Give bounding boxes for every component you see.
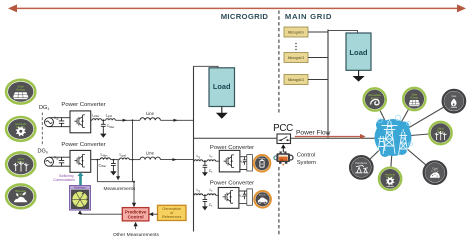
wire Lg-Lf A — [203, 160, 207, 162]
svg-text:Electric: Electric — [259, 193, 267, 196]
IGBT glyph inside box A — [224, 155, 234, 168]
svg-text:Measurements: Measurements — [104, 186, 136, 192]
DC rails DG1 — [49, 118, 70, 127]
main grid load — [346, 33, 371, 70]
wire bus to Lg A — [193, 160, 196, 162]
wire Lgrid to Line DG1 with current arrow — [115, 119, 140, 121]
svg-text:Energy: Energy — [16, 88, 25, 92]
svg-text:Coal: Coal — [432, 166, 438, 170]
wire measurements to predictive control with arrow — [132, 182, 136, 208]
ground under Cfilter DGn — [110, 168, 116, 176]
svg-text:Line: Line — [146, 151, 154, 156]
svg-text:Modulator: Modulator — [74, 186, 86, 190]
svg-text:Predictive: Predictive — [125, 209, 147, 214]
microgrid load — [209, 68, 235, 107]
icon solar energy (cluster) — [403, 88, 425, 110]
DC source VDC1 — [45, 118, 54, 127]
wire bus to Lg B — [193, 194, 196, 196]
DC source VDCn — [45, 157, 54, 166]
svg-text:Other Measurements: Other Measurements — [113, 232, 159, 238]
icon biomass energy (left column) — [6, 184, 35, 208]
node Cf tap A — [204, 160, 206, 162]
top power-exchange double arrow — [8, 4, 466, 12]
node DG1 measurement tap — [132, 119, 134, 121]
wire generation to predictive with arrow — [149, 212, 158, 216]
wire other measurements to predictive with arrow — [134, 222, 138, 229]
inductor Lfilter DG1 — [92, 119, 102, 121]
svg-text:Petroleum: Petroleum — [355, 161, 367, 165]
svg-text:Energy: Energy — [410, 96, 419, 99]
svg-text:Microgrid n: Microgrid n — [288, 31, 304, 35]
wire U1 output — [91, 119, 92, 121]
svg-text:PCC: PCC — [273, 123, 293, 134]
icon solar energy (left column) — [6, 80, 35, 104]
battery icon B1 — [254, 155, 271, 172]
wire PCC to main grid tower — [291, 137, 378, 139]
generation of references box — [158, 205, 187, 220]
icon wind power (left column) — [6, 152, 35, 176]
svg-text:Control: Control — [128, 215, 144, 220]
power converter box A — [219, 150, 240, 172]
wire microgrid-2 box to main bus — [308, 79, 328, 81]
inductor Lgrid DG1 — [106, 119, 116, 121]
DC rails box B to EV — [239, 191, 250, 204]
ground under Cfilter DG1 — [100, 128, 106, 137]
IGBT glyph inside U1 — [75, 115, 85, 128]
IGBT glyph inside Un — [75, 154, 85, 167]
measurement drop wire b with arrow (DGn) — [116, 160, 120, 181]
ground under Cf B — [202, 202, 208, 210]
dashed continuation line between DG1 and DGn — [41, 113, 43, 147]
DC-link capacitor C-dc1 — [59, 118, 64, 127]
wire Lgrid to Line DGn — [129, 159, 140, 161]
svg-text:References: References — [162, 215, 182, 219]
icon gas (cluster) — [443, 90, 465, 112]
svg-text:Power Converter: Power Converter — [210, 180, 254, 186]
power converter box B — [218, 188, 239, 209]
svg-text:Power Converter: Power Converter — [61, 102, 105, 108]
wire microgrid bus to PCC — [194, 137, 278, 139]
icon petroleum (cluster) — [350, 156, 372, 178]
inductor Lg B — [194, 194, 203, 195]
storage block row A — [247, 155, 253, 171]
svg-text:Gas: Gas — [452, 94, 457, 98]
node junction measurement (DGn) — [132, 159, 134, 161]
svg-text:Load: Load — [349, 48, 368, 57]
vertical ellipsis between microgrid boxes — [295, 43, 296, 50]
capacitor Cf A — [203, 161, 208, 168]
measurement collection line — [97, 181, 134, 183]
main grid: box Microgrid 3 — [284, 53, 308, 63]
main grid: box Microgrid n — [284, 27, 308, 37]
svg-text:Commutations: Commutations — [53, 178, 75, 182]
power flow orange arrow — [295, 134, 366, 139]
EV icon B2 — [254, 191, 271, 208]
icon coal (cluster) — [424, 161, 446, 183]
main grid tower graphic — [375, 115, 413, 157]
svg-text:MAIN GRID: MAIN GRID — [285, 12, 332, 21]
wire Lfilter to Lgrid DGn — [110, 159, 119, 161]
ground under main load — [353, 70, 365, 81]
inductor Lg A — [194, 160, 203, 161]
node measurement drop a (DGn) — [97, 159, 99, 161]
dashed microgrid/main-grid separator (lower) — [278, 167, 280, 237]
capacitor Cfilter DG1 — [101, 120, 106, 128]
inductor Line DGn — [140, 157, 160, 160]
wire predictive to modulator with arrow — [78, 210, 122, 214]
svg-text:Load: Load — [213, 82, 231, 91]
ground under microgrid load — [216, 107, 228, 119]
control system icon — [274, 144, 293, 165]
main grid: box Microgrid 2 — [284, 75, 308, 85]
wire microgrid bus to load — [194, 66, 219, 68]
wire Un output — [91, 159, 100, 161]
measurement drop wire a (DGn) — [96, 160, 98, 182]
icon renewable energy (cluster) — [364, 88, 386, 110]
svg-text:Control: Control — [297, 153, 316, 159]
wire Line to bus DG1 with arrow — [160, 119, 193, 121]
svg-text:Line: Line — [146, 111, 154, 116]
icon wind power (cluster) — [429, 122, 451, 144]
capacitor Cfilter DGn — [111, 160, 116, 168]
breaker switch glyph — [279, 137, 290, 141]
node Cfilter tap DGn — [113, 159, 115, 161]
DC-link capacitor row B — [243, 191, 247, 199]
capacitor Cf B — [203, 195, 208, 202]
inductor Lgrid DGn — [120, 158, 130, 160]
dashed microgrid/main-grid separator (upper) — [278, 11, 280, 114]
modulator box — [70, 186, 91, 210]
inductor Lfilter DGn — [100, 158, 110, 160]
measurement vertical wire DG1 to collection — [132, 120, 134, 181]
switching commutations teal arrow — [78, 172, 84, 185]
svg-text:Microgrid 2: Microgrid 2 — [288, 78, 304, 82]
microgrid bus — [193, 66, 195, 231]
wire Lf to box B — [216, 194, 219, 196]
power converter box U1 — [70, 111, 91, 133]
main grid bus — [327, 30, 329, 139]
IGBT glyph inside box B — [223, 191, 233, 204]
svg-text:Power Flow: Power Flow — [296, 130, 331, 137]
svg-text:Power Converter: Power Converter — [61, 142, 105, 148]
node Cf tap B — [204, 194, 206, 196]
wire microgrid-n box to main bus — [308, 31, 328, 33]
svg-text:MICROGRID: MICROGRID — [221, 12, 269, 21]
wire Lf to box A — [216, 160, 220, 162]
inductor Line DG1 — [140, 118, 160, 121]
storage block row B — [247, 189, 253, 205]
power converter box Un — [70, 150, 91, 172]
wire between Lfilter and Lgrid DG1 with node — [102, 119, 106, 121]
inductor Lf B — [207, 194, 216, 195]
wire Lg-Lf B — [203, 194, 207, 196]
inductor Lf A — [207, 160, 216, 161]
node collection junction — [133, 181, 135, 183]
svg-text:Microgrid 3: Microgrid 3 — [288, 56, 304, 60]
icon hydraulic energy (left column) — [6, 117, 35, 141]
DC-link capacitor row A — [243, 157, 247, 165]
predictive control box — [122, 208, 149, 221]
DC rails box A to storage — [240, 157, 250, 170]
DC rails DGn — [49, 157, 70, 166]
wire Line to bus DGn with arrow — [160, 159, 193, 161]
svg-text:System: System — [297, 160, 316, 166]
PCC breaker box — [277, 134, 291, 144]
ground under Cf A — [202, 168, 208, 176]
wire microgrid-3 box to main bus — [308, 57, 328, 59]
icon hydraulic energy (cluster) — [379, 168, 401, 190]
spokes from tower to energy icons — [361, 99, 454, 179]
wire main bus to main load — [328, 31, 358, 33]
DC-link capacitor C-dcn — [59, 157, 64, 166]
